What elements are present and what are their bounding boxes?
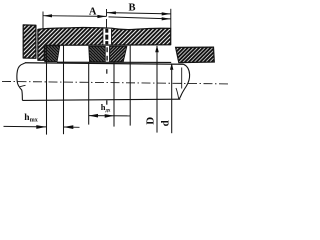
svg-text:A: A [89,7,97,18]
svg-text:B: B [128,3,135,14]
svg-text:d: d [160,120,172,126]
svg-text:mx: mx [30,118,38,124]
svg-text:дx: дx [105,109,111,114]
svg-text:D: D [144,117,156,125]
